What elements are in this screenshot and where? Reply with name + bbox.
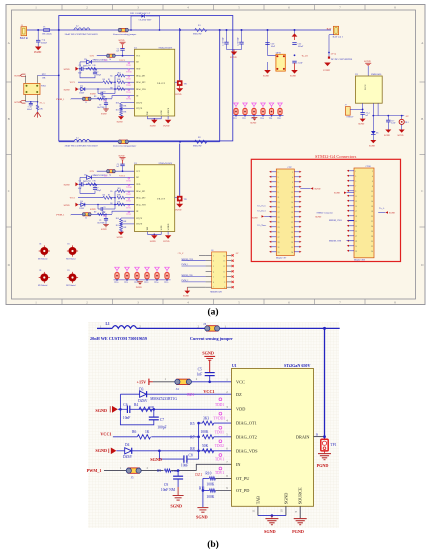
J8 pin stubs xyxy=(206,255,232,287)
svg-text:PGND: PGND xyxy=(317,463,329,468)
svg-text:DZ6V: DZ6V xyxy=(123,455,133,459)
svg-text:VDD: VDD xyxy=(136,68,141,70)
test pad TDV1 xyxy=(215,454,224,462)
svg-text:D5: D5 xyxy=(376,132,378,134)
sheet area (b) xyxy=(88,322,339,528)
svg-text:0R05/3W: 0R05/3W xyxy=(193,34,202,36)
PART B placeholder xyxy=(87,322,340,550)
test pad TDO2 xyxy=(215,440,224,448)
svg-text:TP13: TP13 xyxy=(144,282,148,284)
svg-text:TP11: TP11 xyxy=(124,282,128,284)
svg-text:R6: R6 xyxy=(103,79,105,81)
jumper J4 xyxy=(175,379,192,391)
svg-text:SGND: SGND xyxy=(358,124,364,126)
sheet background xyxy=(6,5,425,305)
svg-text:24: 24 xyxy=(371,226,373,228)
ground SGND (TAB) xyxy=(264,516,278,534)
svg-text:100K: 100K xyxy=(117,79,122,81)
svg-text:J5: J5 xyxy=(131,475,134,479)
svg-text:NTC1: NTC1 xyxy=(41,86,46,88)
svg-text:28: 28 xyxy=(371,236,373,238)
resistor R7 xyxy=(190,430,231,439)
shunt resistor R1 xyxy=(193,25,207,35)
svg-text:100pF: 100pF xyxy=(157,426,166,430)
svg-text:20nH WE CUSTOM 750019659: 20nH WE CUSTOM 750019659 xyxy=(90,336,147,341)
svg-text:TP1: TP1 xyxy=(184,83,187,85)
svg-text:10R: 10R xyxy=(172,469,178,473)
svg-text:31: 31 xyxy=(278,247,280,249)
loop wire D3-C7 xyxy=(119,394,154,425)
ground SGND (VDD row) xyxy=(95,406,117,413)
svg-text:14: 14 xyxy=(223,255,225,257)
svg-text:3: 3 xyxy=(213,266,214,268)
test pad column TDD xyxy=(126,62,132,100)
svg-text:10nF: 10nF xyxy=(271,46,276,48)
test point TD6 xyxy=(277,103,282,120)
svg-text:SGND: SGND xyxy=(64,69,70,71)
ground PGND (TP1) xyxy=(175,86,183,96)
resistor R4 xyxy=(88,65,97,70)
wire (diag test point bus) xyxy=(233,115,284,117)
svg-text:19: 19 xyxy=(355,216,357,218)
svg-text:L2: L2 xyxy=(76,26,78,28)
svg-text:Morpho CN7: Morpho CN7 xyxy=(276,258,286,260)
jumper J4 xyxy=(106,54,115,61)
svg-text:+15V: +15V xyxy=(137,380,147,385)
svg-text:Morpho CN10: Morpho CN10 xyxy=(354,260,365,262)
svg-text:UA_Tx_C: UA_Tx_C xyxy=(258,205,267,208)
resistor R9 xyxy=(141,469,196,473)
test point TD2 xyxy=(242,103,247,120)
svg-text:Ts_off: Ts_off xyxy=(302,54,308,57)
svg-text:12: 12 xyxy=(291,197,293,199)
bulk capacitor C2 xyxy=(227,30,244,50)
svg-text:R6: R6 xyxy=(132,430,136,434)
svg-text:5V in: 5V in xyxy=(331,52,337,55)
svg-text:STM32-G4 Connectors: STM32-G4 Connectors xyxy=(315,154,357,159)
svg-text:SGND: SGND xyxy=(64,89,70,91)
net 5V in xyxy=(328,52,353,60)
capacitor C21 xyxy=(292,43,304,48)
gate driver U1 xyxy=(134,47,174,116)
resistor R5 xyxy=(190,416,231,426)
jumper J (current sensing 2) xyxy=(113,140,137,148)
svg-text:C: C xyxy=(8,189,10,193)
svg-text:SGND: SGND xyxy=(384,135,390,137)
ground SGND (C5) xyxy=(118,40,125,48)
ground PGND (TP1) xyxy=(317,451,331,468)
svg-text:32: 32 xyxy=(291,247,293,249)
svg-text:PGND: PGND xyxy=(292,529,304,534)
svg-text:J7: J7 xyxy=(345,105,347,107)
connector J1 BAT in xyxy=(20,24,29,40)
svg-text:21: 21 xyxy=(355,221,357,223)
svg-text:TAB: TAB xyxy=(255,496,260,504)
svg-text:11: 11 xyxy=(223,271,225,273)
svg-text:7: 7 xyxy=(278,187,279,189)
ground SGND + diode D4 (VDS row) xyxy=(64,86,135,95)
shunt resistor R2 xyxy=(193,137,207,147)
net label DZ1 xyxy=(187,393,194,397)
svg-text:C2 470nF: C2 470nF xyxy=(238,37,240,46)
svg-text:F1: F1 xyxy=(43,27,45,29)
svg-text:10K: 10K xyxy=(39,108,43,110)
svg-text:STi2GaN 650V: STi2GaN 650V xyxy=(284,363,310,368)
J8 no-connect marks xyxy=(232,254,234,288)
svg-text:R4: R4 xyxy=(88,65,90,67)
svg-text:2: 2 xyxy=(213,261,214,263)
svg-text:6: 6 xyxy=(292,182,293,184)
svg-text:16: 16 xyxy=(371,206,373,208)
net labels inside red box xyxy=(300,187,320,190)
svg-text:STM32 Connector: STM32 Connector xyxy=(317,212,334,214)
svg-text:MEDM CON: MEDM CON xyxy=(210,291,222,293)
svg-text:+5V_C: +5V_C xyxy=(177,253,184,255)
capacitor C17 xyxy=(384,116,396,137)
svg-text:R4: R4 xyxy=(134,403,138,407)
svg-text:+BAT: +BAT xyxy=(325,28,331,31)
svg-text:11: 11 xyxy=(278,197,280,199)
svg-text:IN: IN xyxy=(236,462,241,467)
svg-text:R5: R5 xyxy=(110,76,112,78)
svg-text:J3: J3 xyxy=(203,322,206,326)
IC bottom pins TAB/SGND xyxy=(251,506,286,517)
svg-text:8: 8 xyxy=(292,187,293,189)
CN7 pins right xyxy=(294,171,301,253)
svg-text:C8: C8 xyxy=(189,454,193,458)
svg-text:OT_PU: OT_PU xyxy=(136,102,143,104)
net label VCC1 (vcc row) xyxy=(119,60,125,62)
svg-text:PGND: PGND xyxy=(323,69,330,72)
jumper J5 xyxy=(82,97,91,104)
svg-text:1nF: 1nF xyxy=(197,372,203,376)
svg-text:SGND: SGND xyxy=(150,457,162,462)
svg-text:Current sensing jumper: Current sensing jumper xyxy=(113,33,137,36)
capacitor C8 xyxy=(90,89,115,99)
svg-text:D4: D4 xyxy=(80,86,82,88)
wire: drain bus xyxy=(97,327,340,440)
svg-text:BAT in: BAT in xyxy=(20,37,29,40)
svg-text:SGND: SGND xyxy=(389,212,395,214)
svg-text:R9: R9 xyxy=(94,96,96,98)
svg-text:6: 6 xyxy=(372,181,373,183)
svg-text:TDV1: TDV1 xyxy=(215,457,224,461)
svg-text:TDO2: TDO2 xyxy=(126,85,131,87)
svg-text:SGND: SGND xyxy=(202,350,214,355)
capacitor C4 xyxy=(36,30,48,47)
svg-text:C6: C6 xyxy=(79,65,81,67)
svg-text:TVDD1: TVDD1 xyxy=(213,416,225,420)
test pad TDO1 xyxy=(215,426,224,434)
svg-text:28: 28 xyxy=(291,237,293,239)
resistor R8 xyxy=(190,444,213,453)
svg-text:TDV1: TDV1 xyxy=(126,92,131,94)
svg-text:1: 1 xyxy=(355,171,356,173)
svg-text:SGND: SGND xyxy=(334,193,340,195)
capacitor C6 xyxy=(78,65,135,74)
test point TD4 xyxy=(260,103,265,120)
resistor bus R5/R7/R8 xyxy=(114,76,116,94)
svg-text:DRAIN: DRAIN xyxy=(296,434,310,439)
svg-text:SGND: SGND xyxy=(315,217,321,219)
svg-text:100K: 100K xyxy=(122,112,127,114)
svg-text:9: 9 xyxy=(224,282,225,284)
half-bridge 1 gate-drive circuit xyxy=(56,28,187,127)
svg-text:M3 Fiducial: M3 Fiducial xyxy=(38,259,48,261)
svg-text:29: 29 xyxy=(355,241,357,243)
ground SGND (R11) xyxy=(196,508,208,520)
CN7 pins xyxy=(269,171,276,253)
test point TD5 xyxy=(269,103,274,120)
net label VCC1 xyxy=(203,389,214,394)
svg-text:DZ1: DZ1 xyxy=(187,393,194,397)
svg-text:SGND: SGND xyxy=(397,135,403,137)
connector J8 MEDM xyxy=(210,250,226,294)
wire: half-bridge 2 input row xyxy=(59,30,220,143)
net label DZ1 (pwm) xyxy=(103,101,107,103)
svg-text:29: 29 xyxy=(278,242,280,244)
half-bridge 2 circuit (copy of half-bridge 1) xyxy=(56,144,187,243)
svg-text:26: 26 xyxy=(291,232,293,234)
svg-text:18: 18 xyxy=(291,212,293,214)
connector CN7 xyxy=(276,167,294,260)
ground PGND (DC/DC) xyxy=(323,63,330,73)
svg-text:1: 1 xyxy=(213,255,214,257)
connector J7 xyxy=(345,105,364,119)
svg-text:50K: 50K xyxy=(202,444,209,448)
svg-text:3: 3 xyxy=(278,177,279,179)
svg-text:TDD1: TDD1 xyxy=(215,403,224,407)
test pad TDIN xyxy=(215,467,224,475)
svg-text:B: B xyxy=(8,117,10,121)
thermistor NTC wire xyxy=(38,74,60,84)
svg-text:VCC1: VCC1 xyxy=(70,82,76,84)
svg-text:10nF: 10nF xyxy=(78,72,82,74)
wire: J2 down to DC/DC xyxy=(328,35,334,57)
mounting hole H2 xyxy=(66,244,78,261)
svg-text:10nF: 10nF xyxy=(181,464,188,468)
wire DRAIN stub xyxy=(314,432,325,436)
svg-text:C: C xyxy=(421,189,423,193)
svg-text:R1: R1 xyxy=(198,25,201,27)
svg-text:14: 14 xyxy=(371,201,373,203)
svg-text:10: 10 xyxy=(291,192,293,194)
svg-text:34: 34 xyxy=(371,251,373,253)
svg-text:U2: U2 xyxy=(355,74,358,76)
wire PWM row xyxy=(71,98,112,100)
svg-text:C7: C7 xyxy=(160,418,164,422)
capacitor C8 xyxy=(150,451,198,468)
jumper J3 (current sensing) xyxy=(190,322,233,341)
svg-text:SGND: SGND xyxy=(196,514,208,519)
svg-text:1K: 1K xyxy=(145,430,150,434)
svg-text:TDV2: TDV2 xyxy=(126,99,131,101)
optocoupler OPT1 xyxy=(276,52,308,71)
svg-text:TP15: TP15 xyxy=(164,282,168,284)
svg-text:L1: L1 xyxy=(106,322,110,326)
svg-text:MEDM_CN11: MEDM_CN11 xyxy=(182,259,194,261)
svg-text:SGND: SGND xyxy=(150,125,156,127)
ground SGND (NTC top) xyxy=(14,74,25,83)
ground PGND (J8) xyxy=(183,287,206,297)
svg-text:C8: C8 xyxy=(103,92,105,94)
svg-text:J5: J5 xyxy=(85,102,87,104)
test point TP14 xyxy=(154,267,159,284)
STM32-G4 red group box xyxy=(251,154,400,262)
J8 net label wires xyxy=(182,261,206,282)
svg-text:OPT1: OPT1 xyxy=(276,52,281,54)
ground SGND (C9) xyxy=(101,109,109,116)
svg-text:Current sensing jumper: Current sensing jumper xyxy=(190,336,233,341)
capacitor C18 xyxy=(27,102,33,111)
svg-text:OT_PU: OT_PU xyxy=(236,476,250,481)
svg-text:5: 5 xyxy=(278,182,279,184)
svg-text:OT_PD: OT_PD xyxy=(136,108,143,110)
svg-text:B: B xyxy=(421,117,423,121)
svg-text:PWM_1: PWM_1 xyxy=(87,468,102,473)
svg-text:H1: H1 xyxy=(39,244,41,246)
svg-text:MMSZ5233BT1G: MMSZ5233BT1G xyxy=(150,397,177,401)
svg-text:10: 10 xyxy=(371,191,373,193)
svg-text:5V_A: 5V_A xyxy=(40,101,46,104)
wire: main battery rail xyxy=(26,29,331,31)
svg-text:TDO1: TDO1 xyxy=(215,430,224,434)
ground SGND (C5) xyxy=(202,350,215,372)
svg-text:20nH WE CUSTOM 750150659: 20nH WE CUSTOM 750150659 xyxy=(65,33,99,36)
svg-text:U1: U1 xyxy=(232,364,237,368)
svg-text:DZ1: DZ1 xyxy=(103,101,107,103)
svg-text:SGND: SGND xyxy=(252,217,258,219)
svg-text:D3: D3 xyxy=(139,387,144,391)
svg-text:SGND: SGND xyxy=(364,60,371,63)
svg-text:UA_Timer: UA_Timer xyxy=(258,224,267,227)
svg-text:12: 12 xyxy=(223,266,225,268)
ground SGND (diag test points) xyxy=(250,118,257,125)
buck output rail xyxy=(372,103,409,118)
svg-text:NTC: NTC xyxy=(42,74,47,76)
svg-text:Current sensing jumper: Current sensing jumper xyxy=(113,145,137,148)
wire (power test point bus) xyxy=(114,279,171,281)
svg-text:R8: R8 xyxy=(190,447,194,451)
svg-text:DIAG_OT1: DIAG_OT1 xyxy=(136,74,145,77)
svg-text:30: 30 xyxy=(291,242,293,244)
power port +15V xyxy=(89,55,95,58)
svg-text:100pF: 100pF xyxy=(96,75,101,77)
svg-text:32: 32 xyxy=(371,246,373,248)
svg-text:OT_PD: OT_PD xyxy=(236,488,249,493)
ground PGND (bulk caps) xyxy=(230,50,237,60)
svg-text:21: 21 xyxy=(278,222,280,224)
svg-text:Tx_A: Tx_A xyxy=(379,207,385,210)
resistor R4 xyxy=(134,403,155,411)
svg-text:8: 8 xyxy=(224,287,225,289)
svg-text:VCC1: VCC1 xyxy=(203,389,214,394)
svg-text:TVDD1: TVDD1 xyxy=(126,72,132,74)
svg-text:16: 16 xyxy=(291,207,293,209)
svg-text:TP14: TP14 xyxy=(154,282,158,284)
svg-text:R9: R9 xyxy=(157,469,161,473)
ground SGND (VDD row) xyxy=(64,67,79,71)
svg-text:TDO1: TDO1 xyxy=(126,78,131,80)
svg-text:+5V: +5V xyxy=(405,116,409,118)
svg-text:18: 18 xyxy=(371,211,373,213)
resistor R9 xyxy=(94,96,105,100)
svg-text:34: 34 xyxy=(291,252,293,254)
resistor R10 xyxy=(116,102,135,110)
capacitor C14 xyxy=(358,103,369,125)
svg-text:C1 470nF: C1 470nF xyxy=(223,37,225,46)
svg-text:PGND: PGND xyxy=(136,287,142,289)
capacitor C9 xyxy=(97,99,108,109)
svg-text:BAT out 1: BAT out 1 xyxy=(333,36,344,39)
connector CN10 xyxy=(354,166,374,262)
svg-text:PGND: PGND xyxy=(183,296,189,298)
svg-text:MEDM_CN8: MEDM_CN8 xyxy=(182,275,193,277)
ground SGND (NTC bottom) xyxy=(14,95,38,105)
svg-text:J8: J8 xyxy=(211,250,213,252)
resistor R10 xyxy=(203,472,232,491)
svg-text:19: 19 xyxy=(278,217,280,219)
jumper J (current sensing 1) xyxy=(113,28,137,36)
svg-text:TD4: TD4 xyxy=(260,118,263,120)
net label VCC1 + resistor R6 xyxy=(100,430,198,439)
svg-text:13: 13 xyxy=(355,201,357,203)
wire: opto branch left xyxy=(268,30,276,55)
net label PWM_1 xyxy=(56,98,71,101)
svg-text:SGND: SGND xyxy=(117,121,123,123)
svg-text:VCC1: VCC1 xyxy=(119,60,125,62)
svg-text:TD2: TD2 xyxy=(242,118,245,120)
svg-text:SGND: SGND xyxy=(369,145,375,147)
svg-text:C8 470nF 600V: C8 470nF 600V xyxy=(139,20,152,22)
svg-text:D4: D4 xyxy=(125,443,130,447)
svg-text:100nF: 100nF xyxy=(298,46,304,48)
svg-text:CN10: CN10 xyxy=(366,166,372,168)
svg-text:SGND: SGND xyxy=(95,408,107,413)
svg-text:DL1: DL1 xyxy=(405,122,409,124)
svg-text:11: 11 xyxy=(355,196,357,198)
svg-text:25: 25 xyxy=(355,231,357,233)
wire IN row jog xyxy=(112,96,135,99)
ground PGND (SOURCE) xyxy=(292,506,307,534)
svg-text:100K: 100K xyxy=(206,495,214,499)
test point TD1 xyxy=(233,103,238,120)
wire VCC row xyxy=(97,55,135,57)
net label PWM_1 xyxy=(87,466,128,473)
svg-text:J4: J4 xyxy=(109,59,111,61)
capacitor C23 xyxy=(292,61,303,64)
svg-text:STM 5V: STM 5V xyxy=(346,117,354,119)
svg-text:7: 7 xyxy=(355,186,356,188)
svg-text:R10: R10 xyxy=(116,102,119,104)
svg-text:1nF: 1nF xyxy=(116,51,119,53)
svg-text:(a): (a) xyxy=(207,307,218,318)
svg-text:TP1: TP1 xyxy=(330,443,336,447)
svg-text:R10: R10 xyxy=(205,472,211,476)
ground PGND (SOURCE) xyxy=(163,120,171,128)
ground SGND (C9) xyxy=(170,496,183,509)
test point TP11 xyxy=(124,267,129,284)
svg-text:TDD1: TDD1 xyxy=(126,65,131,67)
svg-text:15: 15 xyxy=(355,206,357,208)
test point TP13 xyxy=(144,267,149,284)
mounting hole H4 xyxy=(66,270,78,287)
svg-text:PGND: PGND xyxy=(163,125,169,127)
ground SGND (opto left) xyxy=(263,62,271,77)
ground SGND (above U2) xyxy=(364,60,371,76)
diode D3 xyxy=(120,387,231,403)
loop wire D3/C7 xyxy=(80,62,95,78)
